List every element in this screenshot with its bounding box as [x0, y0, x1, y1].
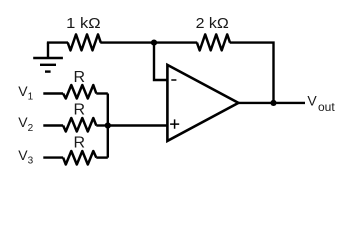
svg-text:1 kΩ: 1 kΩ: [66, 16, 101, 32]
node A junction dot (inverting input node): [151, 40, 157, 46]
output node junction dot: [270, 100, 276, 106]
wire R(V3) to bus: [96, 156, 108, 158]
resistor 2 kOhm: [197, 34, 230, 50]
svg-text:2: 2: [28, 123, 34, 134]
op-amp minus pin mark: [171, 79, 176, 81]
wire V1 to R: [43, 92, 63, 94]
svg-text:R: R: [74, 134, 86, 151]
output wire to Vout: [238, 102, 305, 104]
svg-text:R: R: [74, 102, 86, 119]
resistor R (V1): [63, 85, 96, 99]
svg-text:R: R: [74, 69, 86, 86]
op-amp U1: [167, 65, 238, 141]
resistor 1 kOhm: [68, 34, 101, 50]
wire node A down to op-amp inverting input: [154, 43, 167, 80]
summing bus vertical wire: [107, 94, 109, 158]
svg-text:3: 3: [28, 155, 34, 166]
resistor R (V3): [63, 151, 96, 165]
svg-text:2 kΩ: 2 kΩ: [196, 16, 229, 32]
wire R2k to right corner, down to output node: [230, 43, 274, 103]
wire V3 to R: [43, 156, 63, 158]
wire ground to R1k: [47, 41, 68, 43]
resistor R (V2): [63, 118, 96, 132]
ground: [33, 43, 63, 72]
wire R1k to node A: [100, 41, 197, 43]
op-amp plus pin mark: [170, 119, 179, 128]
svg-text:out: out: [318, 100, 335, 114]
wire node B to op-amp noninverting input: [108, 124, 167, 126]
wire V2 to R: [43, 124, 63, 126]
svg-text:V: V: [307, 92, 317, 108]
wire R(V1) to bus: [96, 92, 108, 94]
wire R(V2) to bus junction: [96, 124, 108, 126]
svg-text:1: 1: [28, 92, 34, 103]
bus junction dot (node B): [105, 122, 111, 128]
